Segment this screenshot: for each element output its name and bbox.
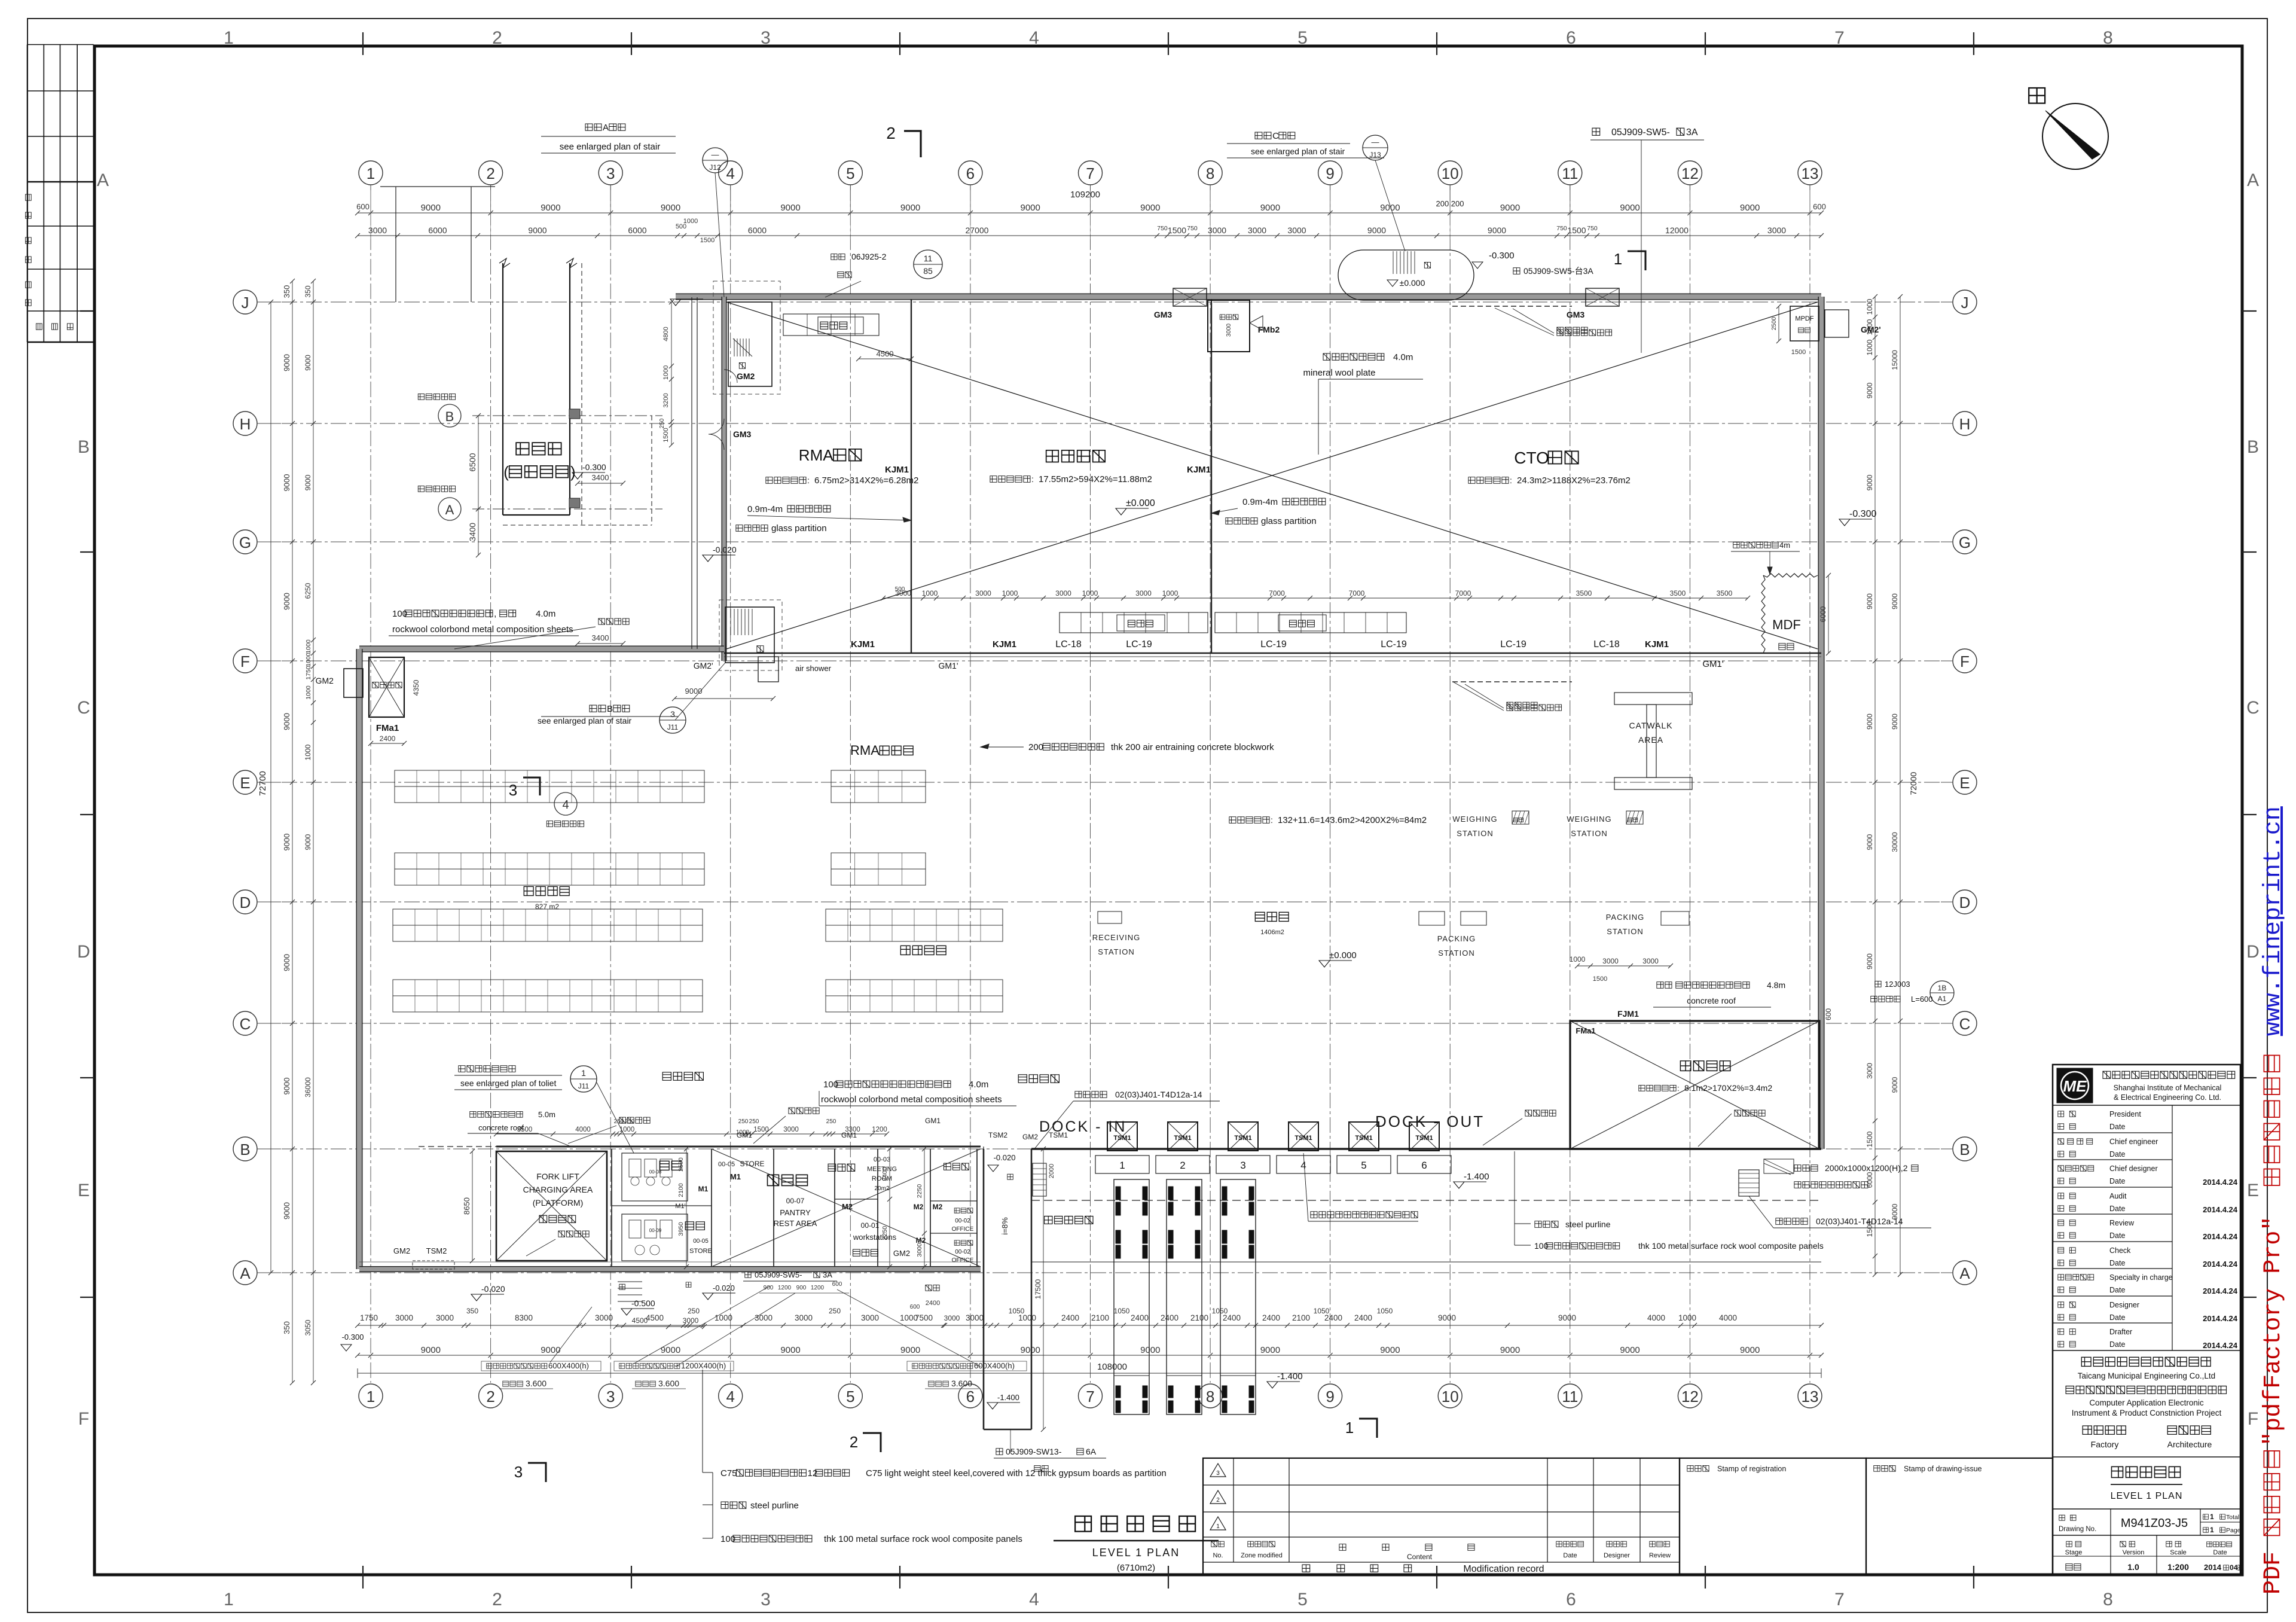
- svg-text:G: G: [1959, 533, 1971, 551]
- MDF room: [1761, 575, 1765, 653]
- svg-text:Version: Version: [2123, 1549, 2145, 1556]
- signature table: [27, 45, 28, 343]
- svg-text:30000: 30000: [1891, 832, 1899, 852]
- svg-text:6000: 6000: [428, 225, 447, 235]
- svg-text:see enlarged plan of stair: see enlarged plan of stair: [1251, 147, 1345, 156]
- svg-text:250: 250: [625, 1118, 635, 1125]
- svg-text:1500: 1500: [1593, 975, 1607, 983]
- svg-text:1050: 1050: [1377, 1307, 1393, 1315]
- svg-text:1750: 1750: [305, 666, 312, 680]
- svg-text:GM2: GM2: [737, 371, 755, 381]
- svg-text:4500: 4500: [646, 1313, 664, 1322]
- svg-text:3000: 3000: [1208, 225, 1226, 235]
- svg-text:Architecture: Architecture: [2167, 1440, 2212, 1449]
- svg-text:Date: Date: [2109, 1286, 2125, 1294]
- packing area: [1255, 912, 1289, 921]
- svg-text:9000: 9000: [1140, 203, 1160, 213]
- svg-text:±0.000: ±0.000: [1126, 498, 1155, 508]
- svg-text:9000: 9000: [304, 834, 312, 850]
- annex internal v dims: [686, 1149, 687, 1267]
- office grid B: [472, 415, 662, 416]
- svg-text:1000: 1000: [715, 1313, 732, 1322]
- svg-text:F: F: [1960, 653, 1970, 670]
- svg-text:3000: 3000: [783, 1126, 799, 1133]
- svg-text:OFFICE: OFFICE: [952, 1226, 974, 1233]
- svg-text:2: 2: [492, 1590, 502, 1609]
- svg-text:13: 13: [1802, 1388, 1819, 1405]
- svg-text:9000: 9000: [282, 834, 291, 851]
- svg-text:Total: Total: [2226, 1514, 2239, 1521]
- svg-text:9000: 9000: [1558, 1313, 1576, 1322]
- svg-text:9000: 9000: [1021, 203, 1040, 213]
- stair C (top oval): [1338, 250, 1474, 300]
- svg-text:4: 4: [562, 798, 569, 812]
- office columns: [569, 409, 580, 419]
- svg-text:9000: 9000: [900, 203, 920, 213]
- svg-text:C: C: [2246, 698, 2260, 718]
- svg-text:3.600: 3.600: [658, 1379, 679, 1388]
- svg-text:0.9m-4m: 0.9m-4m: [747, 504, 783, 514]
- svg-text:2400: 2400: [1262, 1313, 1280, 1322]
- svg-text:1200: 1200: [872, 1126, 887, 1133]
- svg-text:glass partition: glass partition: [771, 523, 827, 533]
- racking band 4: [393, 980, 703, 996]
- svg-text:KJM1: KJM1: [1187, 465, 1211, 475]
- svg-text:,: ,: [494, 609, 496, 619]
- svg-text:9000: 9000: [541, 1345, 560, 1355]
- svg-text:GM2': GM2': [694, 661, 713, 670]
- svg-text:00-01: 00-01: [861, 1221, 880, 1230]
- svg-text:1: 1: [224, 28, 234, 48]
- annex south wall: [359, 1267, 981, 1272]
- svg-text:D: D: [1959, 894, 1971, 911]
- svg-text:5: 5: [846, 1388, 854, 1405]
- svg-text:8650: 8650: [462, 1197, 471, 1215]
- svg-text:4: 4: [726, 164, 734, 182]
- svg-text:9000: 9000: [421, 203, 441, 213]
- svg-text:Designer: Designer: [2109, 1301, 2139, 1309]
- svg-text:GM2: GM2: [893, 1249, 910, 1258]
- svg-text:3000: 3000: [1767, 225, 1786, 235]
- steel ladder refs: [1075, 1092, 1107, 1098]
- main title: [1075, 1516, 1091, 1532]
- svg-text:200: 200: [1028, 742, 1043, 752]
- ramp walls: [983, 1149, 985, 1429]
- svg-text:CHARGING AREA: CHARGING AREA: [523, 1185, 593, 1194]
- svg-text:A: A: [445, 502, 454, 517]
- svg-text:6000: 6000: [1819, 606, 1827, 622]
- svg-text:3.600: 3.600: [526, 1379, 546, 1388]
- svg-text:1000: 1000: [1678, 1313, 1696, 1322]
- svg-text:Audit: Audit: [2109, 1192, 2127, 1200]
- svg-text:GM1: GM1: [925, 1117, 941, 1125]
- left dimension strings: [270, 302, 271, 1273]
- svg-text:Drawing No.: Drawing No.: [2059, 1526, 2096, 1533]
- svg-text:2250: 2250: [916, 1184, 923, 1199]
- svg-text:00-05: 00-05: [718, 1161, 735, 1168]
- grid bubbles bottom: [359, 1384, 383, 1408]
- svg-text:B: B: [445, 409, 454, 424]
- svg-text:LC-19: LC-19: [1381, 639, 1407, 650]
- svg-text:Stage: Stage: [2065, 1549, 2083, 1556]
- svg-text:5.0m: 5.0m: [538, 1110, 555, 1119]
- svg-text:3950: 3950: [677, 1222, 685, 1236]
- svg-text:750: 750: [1556, 225, 1567, 232]
- svg-text:±0.000: ±0.000: [1329, 950, 1357, 961]
- assembly hall label: [1046, 450, 1106, 462]
- svg-text:-0.020: -0.020: [994, 1153, 1016, 1162]
- svg-text:1200: 1200: [778, 1285, 792, 1291]
- svg-text:9000: 9000: [1740, 1345, 1760, 1355]
- svg-text:Review: Review: [2109, 1219, 2135, 1227]
- svg-text:B: B: [78, 437, 90, 457]
- svg-text:PACKING: PACKING: [1606, 913, 1645, 922]
- -0.300 marker left office: [572, 472, 583, 479]
- svg-text:2400: 2400: [1161, 1313, 1178, 1322]
- svg-text:mineral wool plate: mineral wool plate: [1303, 368, 1376, 378]
- svg-text:9000: 9000: [282, 713, 291, 730]
- svg-text:05J909-SW5-: 05J909-SW5-: [755, 1270, 802, 1279]
- svg-text:8300: 8300: [515, 1313, 533, 1322]
- svg-text:Date: Date: [2109, 1231, 2125, 1240]
- svg-text:2014.4.24: 2014.4.24: [2203, 1314, 2238, 1323]
- svg-text:H: H: [1959, 415, 1971, 433]
- svg-text:LEVEL 1 PLAN: LEVEL 1 PLAN: [2111, 1491, 2183, 1501]
- svg-text:6.75m2>314X2%=6.28m2: 6.75m2>314X2%=6.28m2: [814, 475, 918, 486]
- svg-text:72000: 72000: [1909, 772, 1918, 795]
- svg-text:A: A: [97, 170, 109, 190]
- svg-text:200 200: 200 200: [1436, 199, 1464, 208]
- svg-text:B: B: [607, 704, 613, 714]
- svg-text:3500: 3500: [1670, 589, 1686, 597]
- svg-text:-1.400: -1.400: [1277, 1371, 1303, 1382]
- svg-text:2500: 2500: [1771, 316, 1778, 330]
- svg-text:7: 7: [1834, 28, 1845, 48]
- svg-text:1500: 1500: [1168, 225, 1186, 235]
- steel purline notes right: [1535, 1221, 1558, 1228]
- svg-text:LC-18: LC-18: [1593, 639, 1620, 650]
- svg-text:3: 3: [761, 28, 771, 48]
- svg-text:1200X400(h): 1200X400(h): [681, 1361, 726, 1370]
- office grid A: [472, 508, 662, 510]
- svg-text:TSM2: TSM2: [988, 1131, 1007, 1139]
- splash apron ref: [1875, 981, 1881, 987]
- svg-text:1000: 1000: [683, 218, 698, 225]
- svg-text:7: 7: [1086, 1388, 1094, 1405]
- svg-text:1000: 1000: [1162, 589, 1178, 597]
- svg-text:750: 750: [1187, 225, 1198, 232]
- svg-text:GM2: GM2: [1022, 1133, 1038, 1141]
- svg-text:KJM1: KJM1: [851, 639, 875, 650]
- svg-text:06J925-2: 06J925-2: [851, 252, 887, 261]
- svg-text:9000: 9000: [685, 687, 703, 696]
- svg-text:9000: 9000: [1620, 1345, 1639, 1355]
- svg-text:C: C: [77, 698, 90, 718]
- stair A leader + bubble J12: [585, 124, 602, 130]
- svg-text:3000: 3000: [1226, 323, 1232, 337]
- svg-text:2400: 2400: [926, 1300, 940, 1307]
- svg-text:1000: 1000: [305, 685, 312, 700]
- svg-text:www.fineprint.cn: www.fineprint.cn: [2260, 806, 2287, 1036]
- svg-text:-0.300: -0.300: [342, 1333, 364, 1341]
- svg-text:4.0m: 4.0m: [536, 609, 555, 619]
- svg-text:6000: 6000: [628, 225, 646, 235]
- svg-text:GM2': GM2': [1861, 325, 1881, 334]
- svg-text:7000: 7000: [1269, 589, 1285, 597]
- entry steps + levels: [618, 1281, 642, 1282]
- svg-text:6: 6: [966, 1388, 975, 1405]
- svg-text:Specialty in charge: Specialty in charge: [2109, 1273, 2173, 1282]
- svg-text:steel purline: steel purline: [1565, 1219, 1611, 1229]
- svg-text:thk 100 metal surface rock woo: thk 100 metal surface rock wool composit…: [1638, 1241, 1824, 1251]
- svg-text:250: 250: [738, 1118, 749, 1125]
- svg-text:Date: Date: [2109, 1150, 2125, 1158]
- svg-text:(PLATFORM): (PLATFORM): [533, 1198, 584, 1208]
- svg-text:7: 7: [1086, 164, 1094, 182]
- svg-text:8: 8: [2103, 28, 2113, 48]
- svg-text:8: 8: [1206, 1388, 1214, 1405]
- svg-text:M1': M1': [675, 1203, 685, 1210]
- svg-text:2014.4.24: 2014.4.24: [2203, 1260, 2238, 1269]
- svg-text:OFFICE: OFFICE: [952, 1257, 974, 1264]
- ref 05J909-SW5 bottom: [745, 1272, 751, 1278]
- svg-text:-0.020: -0.020: [713, 545, 737, 554]
- svg-text:24.3m2>1188X2%=23.76m2: 24.3m2>1188X2%=23.76m2: [1517, 475, 1631, 486]
- svg-text:M941Z03-J5: M941Z03-J5: [2121, 1517, 2188, 1530]
- level markers dock: [1454, 1182, 1464, 1188]
- svg-text:2100: 2100: [1091, 1313, 1109, 1322]
- svg-text:3000: 3000: [1865, 1063, 1874, 1079]
- svg-text:12: 12: [808, 1468, 818, 1478]
- svg-text:KJM1: KJM1: [885, 465, 909, 475]
- svg-text:9000: 9000: [421, 1345, 441, 1355]
- svg-text:-0.020: -0.020: [481, 1284, 505, 1294]
- svg-text:President: President: [2109, 1110, 2141, 1118]
- svg-text:6: 6: [1566, 1590, 1576, 1609]
- svg-text:02(03)J401-T4D12a-14: 02(03)J401-T4D12a-14: [1816, 1216, 1903, 1226]
- svg-text:9000: 9000: [780, 203, 800, 213]
- office label: [516, 443, 561, 455]
- svg-text:see enlarged plan of stair: see enlarged plan of stair: [538, 716, 632, 725]
- svg-text:9000: 9000: [304, 355, 312, 371]
- svg-text:2100: 2100: [1292, 1313, 1310, 1322]
- svg-text:2400: 2400: [1354, 1313, 1372, 1322]
- svg-text:Chief engineer: Chief engineer: [2109, 1138, 2158, 1146]
- svg-text:2014.4.24: 2014.4.24: [2203, 1232, 2238, 1241]
- svg-text:3000: 3000: [436, 1313, 454, 1322]
- svg-text:(: (: [503, 463, 509, 481]
- svg-text:11: 11: [1562, 1388, 1578, 1405]
- svg-text:9: 9: [1326, 164, 1334, 182]
- svg-text:F: F: [78, 1409, 89, 1429]
- svg-text:B: B: [2247, 437, 2259, 457]
- svg-text:ME: ME: [2063, 1077, 2087, 1095]
- svg-text:): ): [570, 463, 576, 481]
- svg-text:12: 12: [1681, 1388, 1699, 1405]
- office building outline: [502, 263, 503, 515]
- svg-text:J: J: [242, 294, 249, 312]
- svg-text:1: 1: [1216, 1523, 1220, 1530]
- svg-text:RMA: RMA: [799, 446, 833, 464]
- svg-text:-0.020: -0.020: [713, 1283, 735, 1292]
- svg-text:1.0: 1.0: [2127, 1562, 2139, 1572]
- svg-text:4350: 4350: [412, 679, 420, 696]
- svg-text:108000: 108000: [1097, 1362, 1127, 1372]
- svg-text:2014.4.24: 2014.4.24: [2203, 1178, 2238, 1187]
- svg-text:15000: 15000: [1891, 350, 1899, 370]
- svg-text:05J909-SW5-: 05J909-SW5-: [1611, 127, 1670, 138]
- svg-text:GM1': GM1': [737, 1131, 753, 1139]
- svg-text:J12: J12: [709, 163, 721, 172]
- svg-text:C: C: [1272, 131, 1279, 141]
- svg-text:2500: 2500: [677, 1157, 685, 1172]
- svg-text:3: 3: [509, 781, 517, 799]
- svg-text:4m: 4m: [1779, 541, 1790, 550]
- sump pit note: [1794, 1165, 1818, 1172]
- svg-text:Check: Check: [2109, 1246, 2131, 1255]
- air shower: [758, 657, 778, 682]
- svg-text:1000: 1000: [1570, 955, 1586, 964]
- svg-text:600: 600: [356, 202, 370, 211]
- svg-text:KJM1: KJM1: [1645, 639, 1669, 650]
- svg-text:A: A: [240, 1264, 251, 1282]
- svg-text:3000: 3000: [1135, 589, 1152, 597]
- svg-text:9000: 9000: [1865, 593, 1874, 609]
- svg-text:STATION: STATION: [1571, 829, 1607, 838]
- annex north wall (dashed zone): [496, 1146, 981, 1148]
- svg-text:M2: M2: [914, 1203, 924, 1211]
- svg-text:3: 3: [514, 1463, 523, 1481]
- svg-text:LC-19: LC-19: [1500, 639, 1526, 650]
- svg-text:-1.400: -1.400: [1464, 1172, 1489, 1182]
- svg-text:2400: 2400: [380, 734, 396, 743]
- svg-text:C75 light weight steel keel,co: C75 light weight steel keel,covered with…: [866, 1468, 1167, 1478]
- svg-text:RECEIVING: RECEIVING: [1092, 933, 1141, 942]
- svg-text:1000: 1000: [922, 589, 938, 597]
- svg-text:4: 4: [1029, 1590, 1039, 1609]
- level markers main: [1116, 508, 1126, 515]
- svg-text:KJM1: KJM1: [993, 639, 1016, 650]
- svg-text:12J003: 12J003: [1885, 980, 1910, 989]
- svg-text:-0.300: -0.300: [582, 462, 606, 472]
- top ref 05J909: [1592, 128, 1600, 135]
- svg-text:L=600: L=600: [1911, 995, 1933, 1004]
- svg-text:F: F: [2248, 1409, 2258, 1429]
- svg-text:9000: 9000: [1488, 225, 1506, 235]
- trucks: [1114, 1179, 1149, 1414]
- racking band 2: [395, 853, 704, 869]
- svg-text:8: 8: [1206, 164, 1214, 182]
- svg-text:250: 250: [749, 1118, 759, 1125]
- bottom dimension strings: [358, 1325, 1821, 1326]
- svg-text:11: 11: [1562, 164, 1578, 182]
- svg-text:steel purline: steel purline: [750, 1501, 799, 1511]
- svg-text:RMA: RMA: [850, 743, 880, 758]
- concrete roof note warehouse: [1657, 982, 1672, 989]
- svg-text:3000: 3000: [1642, 957, 1659, 965]
- racking band 1: [395, 770, 704, 786]
- svg-text:A: A: [1959, 1264, 1970, 1282]
- svg-text:E: E: [78, 1181, 90, 1200]
- svg-text:9000: 9000: [1891, 1077, 1899, 1093]
- svg-text:9000: 9000: [1500, 203, 1520, 213]
- svg-text:Zone modified: Zone modified: [1241, 1552, 1283, 1559]
- svg-text:600X400(h): 600X400(h): [974, 1361, 1015, 1370]
- svg-text:12000: 12000: [1665, 225, 1689, 235]
- svg-text:see enlarged plan of toliet: see enlarged plan of toliet: [460, 1078, 556, 1088]
- svg-text:TSM1: TSM1: [1113, 1135, 1131, 1142]
- svg-text:D: D: [2246, 942, 2260, 962]
- work area strips middle: [1060, 612, 1208, 633]
- svg-text:GM3: GM3: [733, 429, 752, 439]
- svg-text:250: 250: [829, 1307, 841, 1315]
- svg-text:3000: 3000: [944, 1314, 960, 1322]
- svg-text:TSM2: TSM2: [426, 1246, 447, 1255]
- concrete roof note annex: [470, 1111, 523, 1117]
- svg-text:4.0m: 4.0m: [969, 1080, 988, 1090]
- svg-text:M1: M1: [698, 1185, 709, 1193]
- svg-text:27000: 27000: [966, 225, 989, 235]
- dim row above work strip: [883, 597, 1607, 599]
- svg-text:600: 600: [1824, 1008, 1833, 1020]
- ramp ref: [996, 1449, 1003, 1455]
- svg-text:1500: 1500: [1865, 1131, 1874, 1147]
- svg-text:350: 350: [466, 1307, 478, 1315]
- svg-text:600: 600: [1813, 202, 1826, 211]
- dock doors TSM1: [1107, 1122, 1137, 1151]
- hazard warehouse (bottom right room): [1570, 1021, 1819, 1149]
- svg-text:G: G: [239, 533, 251, 551]
- svg-text:350: 350: [282, 1321, 291, 1334]
- svg-text:2014.4.24: 2014.4.24: [2203, 1286, 2238, 1295]
- svg-text:9000: 9000: [1865, 714, 1874, 730]
- svg-text:3000: 3000: [1248, 225, 1266, 235]
- svg-text:1000: 1000: [662, 365, 670, 380]
- svg-text:3.600: 3.600: [951, 1379, 972, 1388]
- svg-text:STORE: STORE: [689, 1248, 712, 1255]
- svg-text:AREA: AREA: [1638, 735, 1663, 745]
- svg-text:2250: 2250: [881, 1226, 889, 1240]
- svg-text:E: E: [2247, 1181, 2259, 1200]
- dim 6000 MDF: [1828, 575, 1829, 653]
- svg-text:2: 2: [486, 1388, 494, 1405]
- svg-text:5: 5: [1297, 28, 1308, 48]
- svg-text:12: 12: [1681, 164, 1699, 182]
- svg-text:17500: 17500: [1034, 1279, 1042, 1299]
- svg-text:9000: 9000: [304, 474, 312, 490]
- svg-text:00-09: 00-09: [649, 1228, 662, 1233]
- leaders to louvers: [634, 1286, 770, 1364]
- offices: [944, 1163, 969, 1170]
- toilet leader note: [459, 1066, 515, 1072]
- svg-text:8.1m2>170X2%=3.4m2: 8.1m2>170X2%=3.4m2: [1684, 1083, 1772, 1093]
- svg-text:2014.4.24: 2014.4.24: [2203, 1205, 2238, 1214]
- svg-text:C75: C75: [720, 1468, 737, 1478]
- svg-text:9: 9: [1326, 1388, 1334, 1405]
- svg-text:3000: 3000: [1055, 589, 1071, 597]
- GM3 doors top wall: [1173, 288, 1207, 306]
- rack storage label: [900, 946, 946, 955]
- svg-text:D: D: [77, 942, 90, 962]
- svg-text:6: 6: [1566, 28, 1576, 48]
- svg-text:1000: 1000: [619, 1126, 635, 1133]
- smoke vent area big note: [1229, 817, 1269, 824]
- svg-text:4000: 4000: [1719, 1313, 1737, 1322]
- svg-text:1000: 1000: [305, 653, 312, 667]
- svg-text:4000: 4000: [575, 1126, 591, 1133]
- svg-text:00-05: 00-05: [693, 1238, 709, 1245]
- svg-text:—: —: [712, 150, 719, 159]
